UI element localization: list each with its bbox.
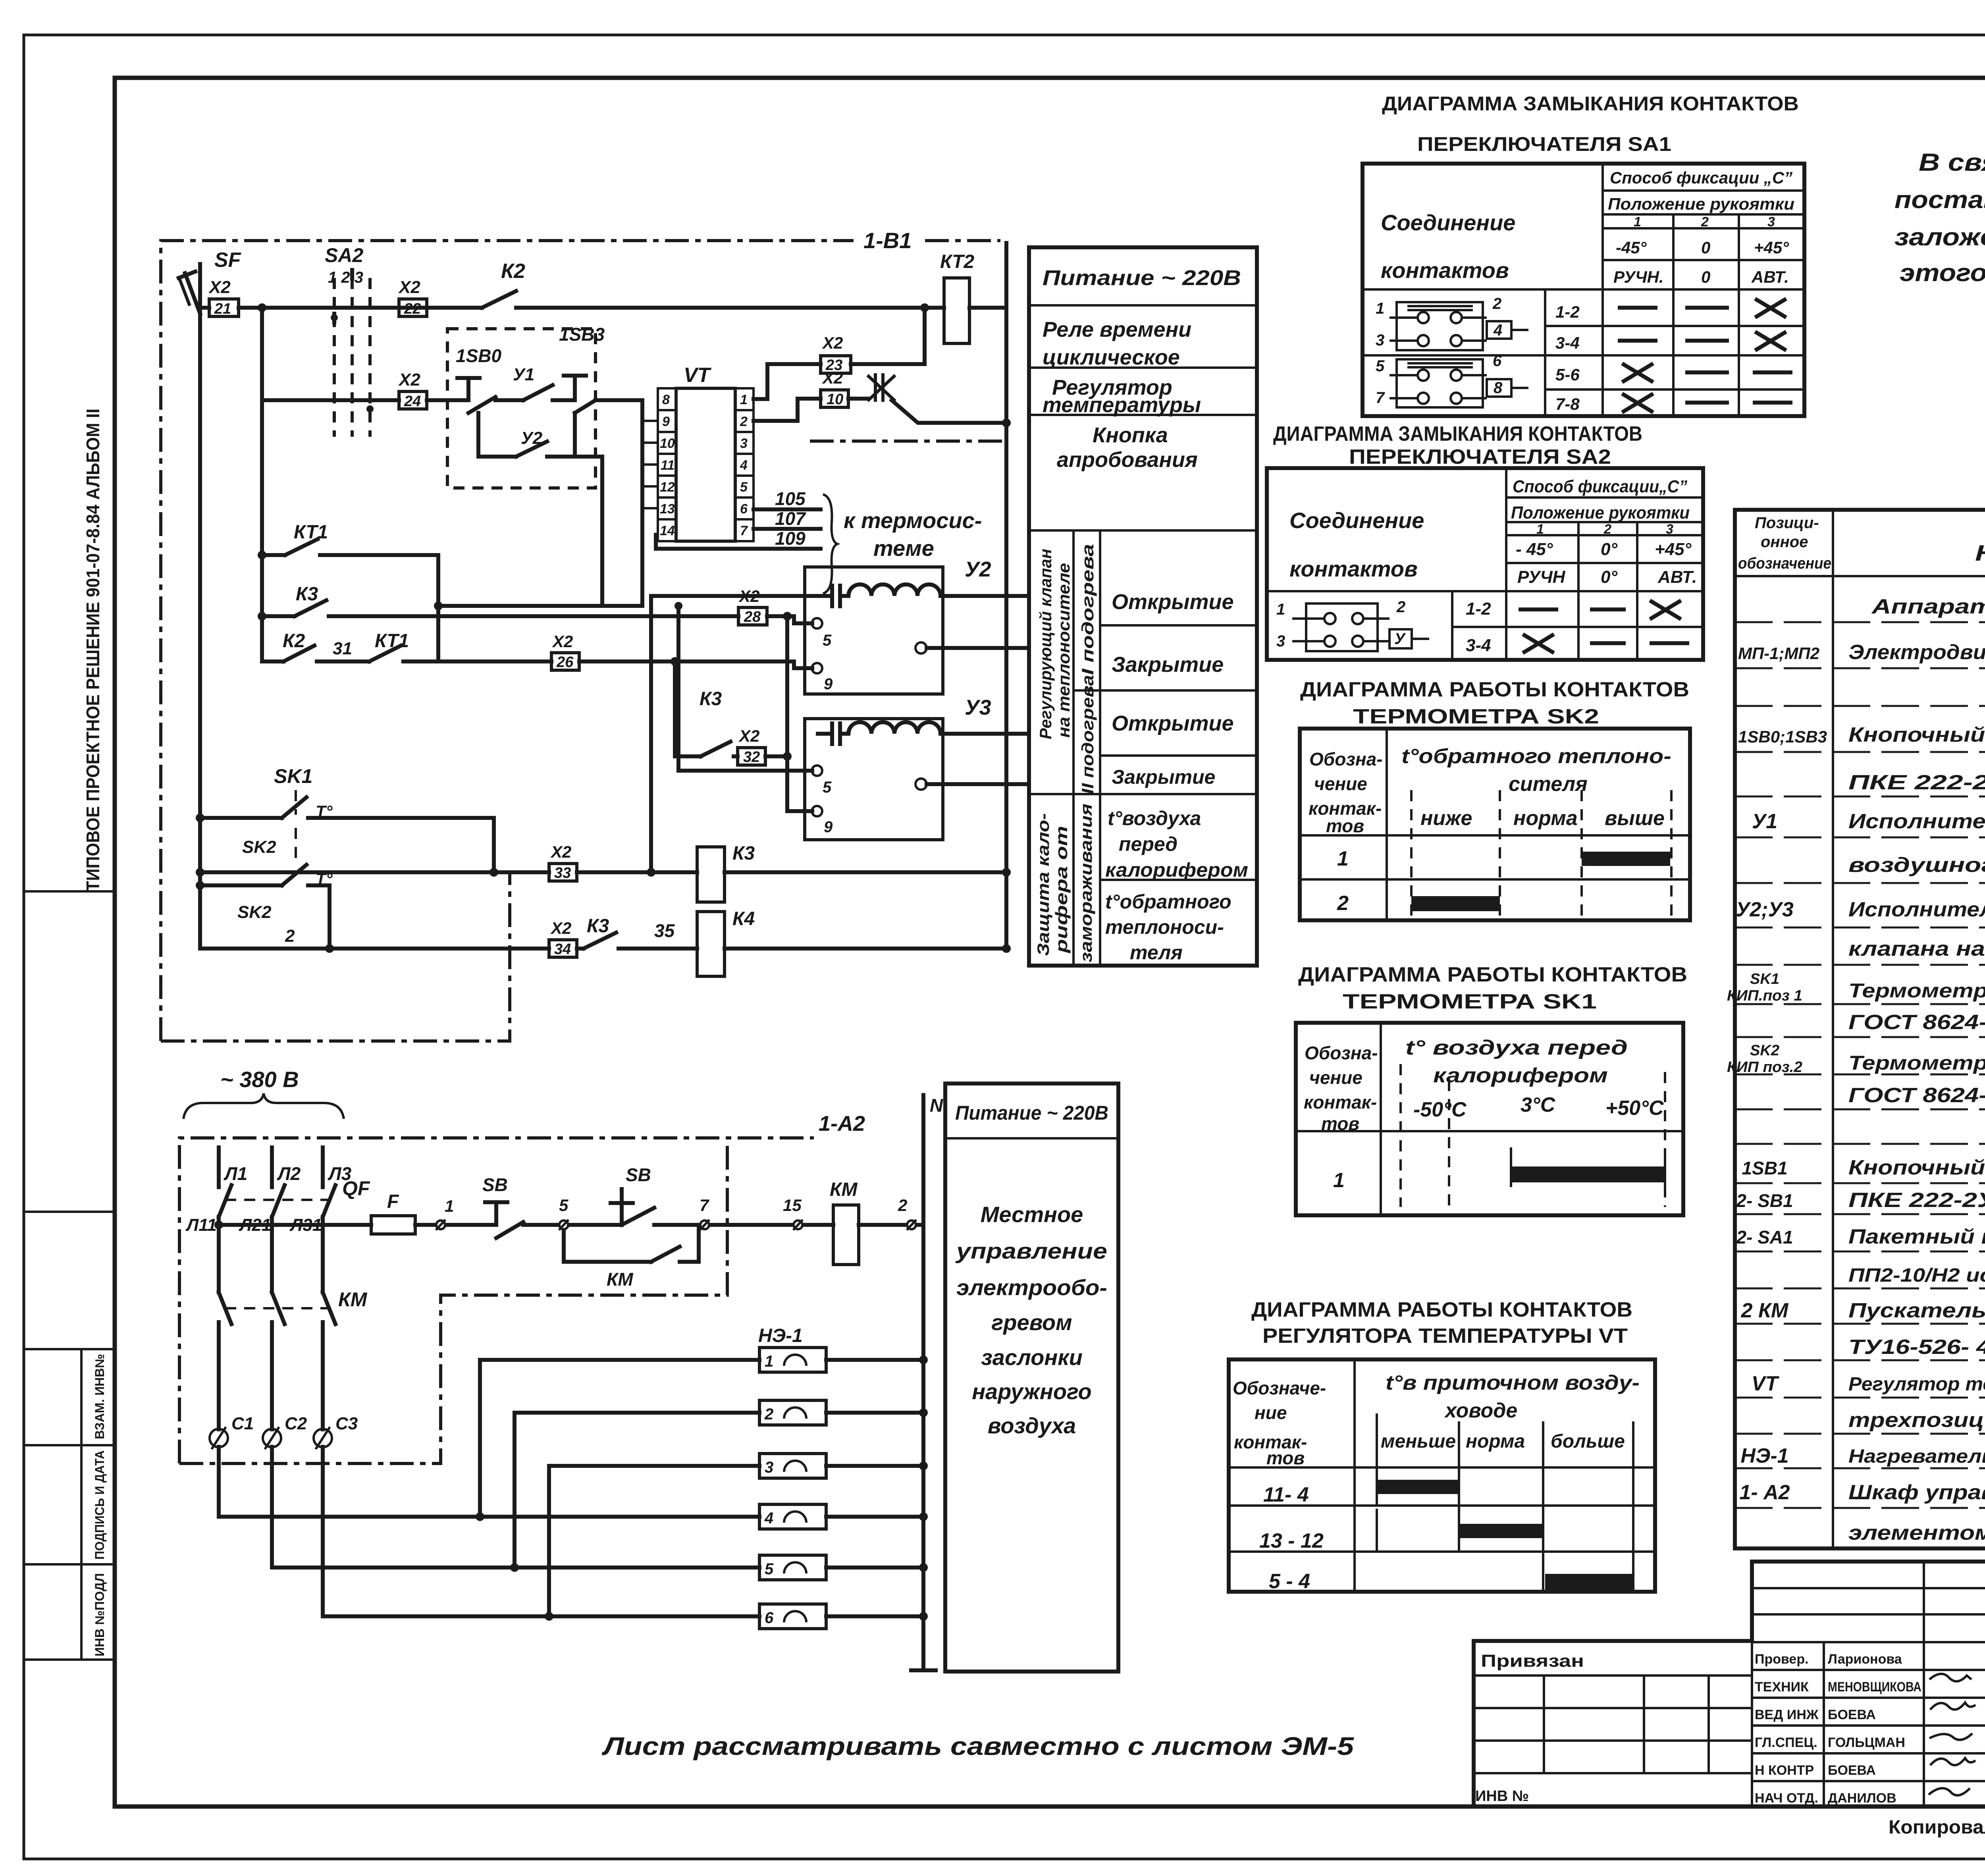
svg-text:2: 2 [740,414,748,429]
svg-text:Х2: Х2 [822,368,843,387]
svg-text:1: 1 [1634,214,1641,229]
svg-text:1: 1 [740,392,748,407]
svg-text:0°: 0° [1601,567,1617,587]
svg-text:21: 21 [214,301,231,317]
svg-text:НАЧ ОТД.: НАЧ ОТД. [1755,1791,1818,1806]
svg-text:Пускатель ПМЛ-1: Пускатель ПМЛ-1 [1848,1299,1985,1322]
svg-text:Л2: Л2 [277,1163,301,1184]
svg-text:F: F [387,1191,399,1212]
svg-text:3°С: 3°С [1521,1093,1556,1116]
svg-text:Регулятор температуры полупров: Регулятор температуры полупроводниковый [1848,1374,1985,1395]
svg-text:Питание ~ 220В: Питание ~ 220В [1043,266,1241,290]
svg-text:~ 380 В: ~ 380 В [220,1067,299,1092]
svg-text:2- SА1: 2- SА1 [1736,1227,1793,1247]
svg-text:9: 9 [662,414,670,429]
svg-text:элементом ЯУ 5111 - 03 А 2И: элементом ЯУ 5111 - 03 А 2И [1848,1521,1985,1544]
svg-text:11- 4: 11- 4 [1263,1483,1309,1506]
svg-text:норма: норма [1466,1431,1525,1452]
svg-text:4: 4 [764,1510,773,1527]
svg-text:клапана на теплоносителе: клапана на теплоносителе [1848,937,1985,960]
svg-text:контактов: контактов [1381,258,1509,283]
svg-text:1SВ0;1SВ3: 1SВ0;1SВ3 [1738,727,1827,746]
svg-text:8: 8 [662,392,670,407]
svg-text:перед: перед [1119,833,1178,855]
svg-text:- 45°: - 45° [1516,540,1553,559]
svg-text:Способ фиксации„С”: Способ фиксации„С” [1513,477,1687,496]
svg-text:SB: SB [482,1174,508,1195]
svg-text:Аппаратура по месту: Аппаратура по месту [1871,595,1985,618]
svg-text:9: 9 [824,675,833,693]
svg-text:ПЕРЕКЛЮЧАТЕЛЯ SA1: ПЕРЕКЛЮЧАТЕЛЯ SA1 [1417,133,1671,155]
svg-text:ВЗАМ. ИНВ№: ВЗАМ. ИНВ№ [93,1354,107,1439]
svg-text:В связи с тем, что завод прод: В связи с тем, что завод продолжает [1919,149,1985,176]
svg-text:ИНВ №: ИНВ № [1475,1788,1529,1805]
svg-text:10: 10 [660,436,675,451]
svg-text:1: 1 [1276,601,1285,618]
svg-text:N: N [930,1095,943,1116]
svg-text:чение: чение [1314,773,1367,794]
svg-text:ТИПОВОЕ ПРОЕКТНОЕ РЕШЕНИЕ 9: ТИПОВОЕ ПРОЕКТНОЕ РЕШЕНИЕ 901-07-8.84 АЛ… [83,409,103,891]
svg-text:Обозна-: Обозна- [1309,749,1383,769]
svg-text:КМ: КМ [338,1288,368,1311]
svg-text:3: 3 [1666,522,1673,537]
svg-text:этого регулятора.: этого регулятора. [1900,259,1985,287]
svg-text:10: 10 [827,391,843,408]
svg-text:2: 2 [1396,598,1405,616]
svg-text:6: 6 [765,1609,774,1627]
svg-text:1-2: 1-2 [1466,599,1491,619]
svg-text:электрообо-: электрообо- [956,1275,1107,1300]
svg-text:0: 0 [1701,268,1710,286]
svg-text:замораживания: замораживания [1077,804,1095,962]
svg-text:У1: У1 [1752,810,1777,833]
svg-text:1: 1 [1376,300,1384,317]
svg-text:34: 34 [554,941,571,958]
svg-text:ПП2-10/Н2 исполнение IV ОСТ16.: ПП2-10/Н2 исполнение IV ОСТ16.0.526.001-… [1848,1265,1985,1286]
svg-text:заложена аппаратура для работы: заложена аппаратура для работы [1894,224,1985,251]
svg-text:Закрытие: Закрытие [1112,653,1224,677]
svg-text:рифера от: рифера от [1052,826,1071,953]
svg-text:2: 2 [1337,892,1349,915]
svg-text:4: 4 [1493,322,1502,339]
svg-text:контак-: контак- [1304,1092,1377,1112]
svg-text:КМ: КМ [607,1269,634,1290]
svg-text:31: 31 [333,639,352,658]
svg-text:Защита кало-: Защита кало- [1034,813,1052,956]
svg-text:наружного: наружного [972,1379,1092,1404]
svg-text:Х2: Х2 [398,278,420,297]
svg-text:1: 1 [765,1353,773,1370]
svg-text:Электродвигатель 4А 80 А6; 0,7: Электродвигатель 4А 80 А6; 0,75кВт~380в [1848,641,1985,664]
svg-text:Открытие: Открытие [1112,590,1234,614]
svg-text:2 КМ: 2 КМ [1741,1299,1789,1322]
svg-text:ховоде: ховоде [1444,1399,1517,1422]
svg-text:5-6: 5-6 [1555,365,1580,384]
svg-text:11: 11 [661,458,675,473]
svg-text:7: 7 [1376,389,1385,407]
svg-text:Соединение: Соединение [1289,508,1424,533]
svg-text:0: 0 [1701,238,1710,257]
svg-text:обозначение: обозначение [1738,555,1831,572]
svg-text:У: У [1394,630,1406,648]
svg-text:Х2: Х2 [822,334,843,352]
svg-text:SB: SB [626,1165,651,1185]
svg-text:1-2: 1-2 [1555,303,1580,321]
svg-text:У2;У3: У2;У3 [1736,898,1794,921]
svg-text:теля: теля [1130,941,1183,964]
svg-text:ТЕРМОМЕТРА SK2: ТЕРМОМЕТРА SK2 [1353,705,1599,728]
svg-text:Кнопка: Кнопка [1093,423,1168,447]
svg-text:У2: У2 [965,557,991,581]
svg-text:3: 3 [1376,332,1384,349]
svg-text:Соединение: Соединение [1381,210,1515,235]
svg-text:Исполнительный механизм: Исполнительный механизм [1848,810,1985,833]
svg-text:1: 1 [445,1197,454,1215]
svg-text:2: 2 [285,926,295,946]
svg-text:ВЕД ИНЖ: ВЕД ИНЖ [1755,1707,1819,1722]
svg-text:Кнопочный пост управления: Кнопочный пост управления [1848,1156,1985,1179]
svg-text:1: 1 [1333,1169,1345,1192]
svg-text:У1: У1 [513,365,534,384]
svg-text:Х2: Х2 [208,278,231,297]
svg-text:Х2: Х2 [550,919,571,937]
svg-text:5: 5 [765,1560,774,1578]
svg-text:107: 107 [775,508,806,529]
svg-text:ГОСТ 8624-71: ГОСТ 8624-71 [1848,1011,1985,1034]
svg-text:Копировал: Коршунова: Копировал: Коршунова [1889,1817,1985,1838]
svg-text:НЭ-1: НЭ-1 [1740,1444,1788,1467]
svg-text:VT: VT [1752,1372,1780,1395]
svg-text:Пакетный переключатель: Пакетный переключатель [1848,1225,1985,1248]
svg-text:гревом: гревом [991,1310,1072,1335]
svg-text:3: 3 [765,1459,773,1476]
svg-text:6: 6 [740,501,748,517]
svg-text:24: 24 [404,393,421,410]
svg-text:Привязан: Привязан [1481,1651,1584,1671]
svg-text:-45°: -45° [1616,238,1647,257]
svg-text:2: 2 [1603,522,1611,537]
svg-text:норма: норма [1513,807,1578,830]
svg-text:апробования: апробования [1057,448,1198,472]
svg-text:ДИАГРАММА РАБОТЫ КОНТАКТОВ: ДИАГРАММА РАБОТЫ КОНТАКТОВ [1300,678,1689,701]
svg-text:Исполнительньный механизм: Исполнительньный механизм [1848,898,1985,921]
svg-text:SK2: SK2 [237,902,272,922]
svg-text:1SВ1: 1SВ1 [1742,1158,1787,1178]
svg-text:3-4: 3-4 [1555,334,1580,352]
svg-text:1SB3: 1SB3 [559,324,605,345]
svg-text:Позици-: Позици- [1755,514,1819,532]
svg-text:ниже: ниже [1420,807,1472,830]
svg-text:БОЕВА: БОЕВА [1828,1763,1876,1778]
svg-text:ПОДПИСЬ И ДАТА: ПОДПИСЬ И ДАТА [93,1450,107,1560]
svg-text:К3: К3 [700,688,722,710]
svg-text:Лист рассматривать савместно с: Лист рассматривать савместно с листом ЭМ… [601,1732,1354,1760]
svg-text:I подогрева: I подогрева [1078,544,1097,675]
svg-text:ДИАГРАММА ЗАМЫКАНИЯ КОНТАКТОВ: ДИАГРАММА ЗАМЫКАНИЯ КОНТАКТОВ [1382,93,1799,115]
svg-text:циклическое: циклическое [1043,345,1180,369]
svg-text:+45°: +45° [1754,238,1789,257]
svg-text:+50°С: +50°С [1605,1097,1664,1120]
svg-text:Л1: Л1 [224,1163,247,1184]
svg-text:-50°С: -50°С [1413,1098,1467,1121]
svg-text:Способ фиксации „С”: Способ фиксации „С” [1610,168,1792,187]
svg-text:Термометр манометрический ТПГ-: Термометр манометрический ТПГ-СК [1848,979,1985,1002]
svg-text:К2: К2 [501,260,525,283]
svg-text:воздуха: воздуха [988,1413,1076,1438]
svg-text:3-4: 3-4 [1466,636,1491,655]
svg-text:управление: управление [955,1238,1107,1263]
svg-text:больше: больше [1551,1431,1625,1452]
svg-text:26: 26 [556,654,574,671]
svg-text:+45°: +45° [1655,540,1692,559]
svg-text:ПЕРЕКЛЮЧАТЕЛЯ SA2: ПЕРЕКЛЮЧАТЕЛЯ SA2 [1349,445,1611,469]
svg-text:ДИАГРАММА РАБОТЫ КОНТАКТОВ: ДИАГРАММА РАБОТЫ КОНТАКТОВ [1298,963,1687,986]
svg-text:С1: С1 [231,1414,254,1433]
svg-text:ПКЕ 222-2У3 ТУ16.526.217-78: ПКЕ 222-2У3 ТУ16.526.217-78 [1848,771,1985,794]
svg-text:1-А2: 1-А2 [819,1112,865,1136]
svg-text:меньше: меньше [1381,1431,1456,1452]
svg-text:12: 12 [660,480,675,495]
svg-text:РУЧН: РУЧН [1517,567,1566,587]
svg-text:t°обратного теплоно-: t°обратного теплоно- [1401,745,1671,768]
svg-text:Питание ~ 220В: Питание ~ 220В [955,1102,1108,1124]
svg-text:Ларионова: Ларионова [1828,1652,1902,1667]
svg-text:КИП.поз 1: КИП.поз 1 [1727,987,1802,1004]
svg-text:14: 14 [660,523,675,538]
svg-text:Нагревательный элемент N = 1.6: Нагревательный элемент N = 1.6 кВт [1848,1446,1985,1467]
svg-text:5: 5 [1376,357,1385,375]
svg-text:к термосис-: к термосис- [844,508,982,533]
svg-text:МЕНОВЩИКОВА: МЕНОВЩИКОВА [1828,1679,1921,1695]
svg-text:ГОСТ 8624-71: ГОСТ 8624-71 [1848,1084,1985,1107]
svg-text:15: 15 [783,1196,802,1215]
svg-text:SK1: SK1 [1750,971,1779,987]
svg-text:SA2: SA2 [325,244,363,266]
svg-text:3: 3 [1276,632,1285,650]
svg-text:2- SВ1: 2- SВ1 [1736,1190,1793,1211]
svg-text:Местное: Местное [981,1202,1083,1227]
svg-text:онное: онное [1761,533,1808,551]
svg-text:поставлять регуляторы ПТР-3-04: поставлять регуляторы ПТР-3-04 в схеме [1894,186,1985,214]
svg-text:33: 33 [554,865,571,881]
svg-text:2: 2 [764,1406,773,1423]
svg-text:Кнопочный пост управления: Кнопочный пост управления [1848,723,1985,746]
svg-text:1- А2: 1- А2 [1739,1481,1790,1504]
svg-text:К3: К3 [587,916,609,937]
svg-text:II подогрева: II подогрева [1078,675,1097,794]
svg-text:Реле времени: Реле времени [1043,318,1191,341]
svg-text:тов: тов [1326,816,1364,836]
svg-text:контактов: контактов [1289,556,1418,581]
svg-text:К3: К3 [296,584,318,605]
svg-text:КИП поз.2: КИП поз.2 [1727,1059,1802,1076]
svg-text:на теплоносителе: на теплоносителе [1054,563,1073,738]
svg-text:Провер.: Провер. [1755,1652,1809,1667]
svg-text:7: 7 [700,1196,709,1215]
svg-text:ГОЛЬЦМАН: ГОЛЬЦМАН [1828,1735,1905,1750]
svg-text:Х2: Х2 [550,843,571,861]
svg-text:КТ2: КТ2 [940,251,974,272]
svg-text:теме: теме [873,536,934,561]
svg-text:МП-1;МП2: МП-1;МП2 [1738,644,1819,663]
svg-text:2: 2 [1701,214,1709,229]
svg-text:Х2: Х2 [398,370,420,389]
svg-text:С3: С3 [335,1414,358,1433]
svg-text:0°: 0° [1601,540,1617,559]
svg-text:Т°: Т° [316,802,333,821]
svg-text:РЕГУЛЯТОРА ТЕМПЕРАТУРЫ VT: РЕГУЛЯТОРА ТЕМПЕРАТУРЫ VT [1262,1325,1628,1348]
svg-text:5: 5 [740,480,748,495]
svg-text:ДИАГРАММА ЗАМЫКАНИЯ КОНТАКТОВ: ДИАГРАММА ЗАМЫКАНИЯ КОНТАКТОВ [1273,422,1642,445]
svg-text:Термометр манометрический ТПГ-: Термометр манометрический ТПГ-СК [1848,1052,1985,1074]
svg-text:7-8: 7-8 [1555,395,1580,413]
svg-text:Обозначе-: Обозначе- [1233,1378,1326,1398]
svg-text:5: 5 [559,1196,569,1215]
svg-text:4: 4 [740,458,748,473]
svg-text:КТ1: КТ1 [375,630,409,652]
svg-text:У3: У3 [965,696,991,719]
svg-text:3: 3 [1767,214,1775,229]
svg-text:температуры: температуры [1043,393,1201,417]
svg-text:Регулирующий клапан: Регулирующий клапан [1036,549,1055,739]
svg-text:t° воздуха перед: t° воздуха перед [1405,1036,1628,1059]
svg-text:1SB0: 1SB0 [456,345,501,366]
svg-text:5: 5 [823,632,832,649]
svg-text:8: 8 [1494,379,1503,397]
svg-text:1: 1 [1337,847,1349,870]
svg-text:6: 6 [1493,352,1502,370]
svg-text:БОЕВА: БОЕВА [1828,1707,1876,1722]
svg-text:t°обратного: t°обратного [1105,891,1231,913]
svg-text:28: 28 [744,609,761,625]
svg-text:Положение рукоятки: Положение рукоятки [1511,503,1690,523]
svg-text:SK2: SK2 [1750,1042,1779,1059]
svg-text:Положение рукоятки: Положение рукоятки [1608,195,1794,213]
svg-text:32: 32 [743,749,760,765]
svg-text:1 2 3: 1 2 3 [328,269,363,286]
svg-text:ТЕХНИК: ТЕХНИК [1755,1679,1809,1695]
svg-text:ПКЕ 222-2У3 ТУ16. 526. 217-: ПКЕ 222-2У3 ТУ16. 526. 217- 78 [1848,1189,1985,1212]
svg-text:выше: выше [1605,807,1665,830]
svg-text:АВТ.: АВТ. [1751,268,1789,286]
svg-text:Л11: Л11 [185,1215,217,1235]
svg-text:109: 109 [775,528,806,549]
svg-text:ДИАГРАММА РАБОТЫ КОНТАКТОВ: ДИАГРАММА РАБОТЫ КОНТАКТОВ [1251,1298,1632,1321]
svg-text:ТУ16-526- 437- 78: ТУ16-526- 437- 78 [1848,1336,1985,1359]
svg-text:t°в приточном возду-: t°в приточном возду- [1386,1371,1640,1394]
svg-text:КМ: КМ [830,1179,858,1200]
svg-text:Шкаф управления нагревателоным: Шкаф управления нагревателоным [1848,1481,1985,1504]
svg-text:ИНВ №ПОДЛ: ИНВ №ПОДЛ [93,1573,107,1656]
svg-text:тов: тов [1266,1448,1305,1468]
svg-text:К4: К4 [732,908,755,929]
svg-text:5: 5 [823,779,832,796]
svg-text:9: 9 [824,818,833,836]
svg-text:2: 2 [1492,295,1501,312]
svg-text:SF: SF [214,249,241,272]
svg-text:Обозна-: Обозна- [1305,1043,1378,1063]
svg-text:Наименование: Наименование [1975,540,1985,565]
svg-text:Х2: Х2 [738,727,759,745]
svg-text:КТ1: КТ1 [294,522,328,543]
svg-text:5 - 4: 5 - 4 [1269,1570,1310,1593]
svg-text:SK1: SK1 [274,765,312,787]
svg-text:К3: К3 [732,843,755,864]
svg-text:С2: С2 [285,1414,307,1433]
svg-text:105: 105 [775,488,806,509]
svg-text:35: 35 [654,920,675,941]
svg-text:калорифером: калорифером [1433,1064,1608,1087]
svg-text:ГЛ.СПЕЦ.: ГЛ.СПЕЦ. [1755,1735,1817,1750]
svg-text:ДАНИЛОВ: ДАНИЛОВ [1828,1791,1896,1806]
svg-text:заслонки: заслонки [981,1345,1083,1370]
svg-text:сителя: сителя [1509,773,1588,796]
svg-text:ТЕРМОМЕТРА SK1: ТЕРМОМЕТРА SK1 [1343,990,1597,1013]
svg-text:НЭ-1: НЭ-1 [758,1325,803,1346]
svg-text:Н КОНТР: Н КОНТР [1755,1763,1814,1778]
svg-text:трехпозиционный ТМ-8: трехпозиционный ТМ-8 [1848,1409,1985,1432]
svg-text:t°воздуха: t°воздуха [1108,807,1201,829]
svg-text:1: 1 [1536,522,1544,537]
svg-text:К2: К2 [283,630,305,652]
svg-text:РУЧН.: РУЧН. [1613,268,1664,286]
svg-text:ние: ние [1255,1402,1287,1423]
svg-text:1-В1: 1-В1 [863,228,912,253]
svg-text:QF: QF [342,1177,370,1199]
svg-text:Открытие: Открытие [1112,711,1234,735]
svg-text:воздушного клапана: воздушного клапана [1848,854,1985,877]
svg-text:7: 7 [740,523,748,538]
svg-text:Закрытие: Закрытие [1112,766,1215,788]
svg-text:SK2: SK2 [242,837,276,857]
svg-text:3: 3 [740,436,748,451]
svg-text:калорифером: калорифером [1105,859,1248,881]
svg-text:тов: тов [1321,1113,1359,1134]
svg-text:13 - 12: 13 - 12 [1259,1529,1324,1552]
svg-text:теплоноси-: теплоноси- [1105,916,1224,938]
svg-text:чение: чение [1309,1067,1363,1088]
svg-text:2: 2 [898,1196,907,1215]
svg-text:Х2: Х2 [552,632,573,651]
svg-text:22: 22 [404,301,421,317]
svg-text:13: 13 [660,501,675,517]
svg-text:АВТ.: АВТ. [1657,567,1697,587]
svg-text:VT: VT [684,364,712,387]
